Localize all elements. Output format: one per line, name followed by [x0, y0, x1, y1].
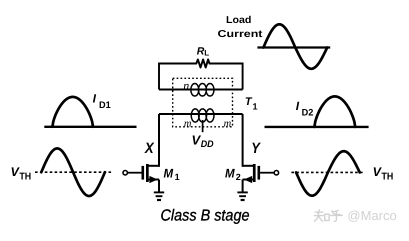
svg-text:M: M: [164, 166, 174, 180]
svg-text:m: m: [224, 119, 232, 130]
svg-text:n: n: [183, 78, 189, 92]
svg-text:1: 1: [253, 102, 258, 112]
svg-text:@Marco: @Marco: [347, 208, 396, 223]
svg-text:1: 1: [175, 172, 180, 182]
svg-text:D1: D1: [99, 100, 111, 111]
svg-text:Class B stage: Class B stage: [161, 207, 250, 224]
svg-text:DD: DD: [201, 139, 214, 150]
svg-text:TH: TH: [382, 172, 394, 183]
svg-text:Current: Current: [218, 29, 264, 40]
svg-text:m: m: [184, 119, 192, 130]
svg-text:X: X: [144, 140, 155, 157]
svg-text:L: L: [204, 48, 209, 57]
svg-text:TH: TH: [19, 172, 31, 183]
svg-text:D2: D2: [302, 107, 314, 118]
svg-text:M: M: [225, 166, 235, 180]
svg-text:2: 2: [236, 172, 241, 182]
svg-text:Load: Load: [226, 15, 251, 26]
